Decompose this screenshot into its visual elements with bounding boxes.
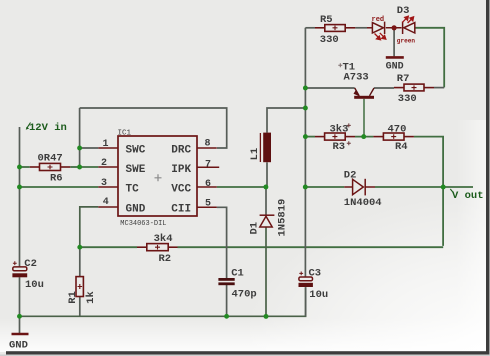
wire D1 column bottom xyxy=(265,227,267,316)
svg-text:TC: TC xyxy=(126,183,140,195)
svg-text:3: 3 xyxy=(101,178,107,189)
wire R6 to junction xyxy=(70,166,79,168)
resistor R7 xyxy=(394,84,434,91)
transistor T1 xyxy=(354,88,375,99)
svg-text:1N5819: 1N5819 xyxy=(277,199,289,237)
svg-text:1k: 1k xyxy=(85,291,97,304)
node C1 ground xyxy=(224,314,229,319)
wire pin2 row xyxy=(80,166,99,168)
svg-text:MC34063-DIL: MC34063-DIL xyxy=(120,220,166,228)
svg-text:7: 7 xyxy=(205,159,211,170)
svg-text:12V in: 12V in xyxy=(29,122,67,134)
svg-text:R1: R1 xyxy=(67,291,79,304)
wire R2 row right xyxy=(178,246,444,248)
IC1 pin name labels xyxy=(126,145,192,216)
resistor R6 xyxy=(30,163,71,170)
led D3 red arrows xyxy=(375,33,386,40)
svg-text:red: red xyxy=(372,16,385,24)
gnd symbol left xyxy=(12,333,29,336)
wire ground row xyxy=(20,287,306,316)
svg-text:470p: 470p xyxy=(232,289,257,301)
wire vout row xyxy=(305,186,344,188)
wire R2 row left xyxy=(80,246,137,248)
resistor R3 xyxy=(315,133,355,140)
svg-text:D1: D1 xyxy=(249,222,261,235)
frame border right xyxy=(486,0,489,355)
node D1 ground xyxy=(264,314,269,319)
svg-text:10u: 10u xyxy=(309,289,328,301)
svg-text:R3: R3 xyxy=(333,141,346,153)
svg-text:R4: R4 xyxy=(395,141,408,153)
wire R5 to red led xyxy=(355,27,367,29)
pin7 stub only xyxy=(197,166,219,168)
resistor R4 xyxy=(373,133,414,140)
svg-text:C3: C3 xyxy=(309,268,322,280)
svg-text:R2: R2 xyxy=(159,253,172,265)
svg-text:R7: R7 xyxy=(397,73,410,85)
wire pin3 row xyxy=(20,186,99,188)
svg-text:C2: C2 xyxy=(24,258,37,270)
resistor R5 xyxy=(315,25,355,32)
wire C3 bottom xyxy=(305,287,307,316)
IC1 origin cross xyxy=(155,174,162,181)
capacitor C1 xyxy=(218,278,234,285)
svg-text:DRC: DRC xyxy=(171,145,191,157)
led D3 green xyxy=(403,22,415,34)
wire D2 right to vout xyxy=(375,186,473,188)
IC1 pin numbers xyxy=(101,139,211,210)
node L1 top xyxy=(303,106,308,111)
wire D1 column top xyxy=(265,187,267,215)
wire R7 right xyxy=(434,87,444,89)
wire R1 bottom xyxy=(79,297,81,317)
svg-text:330: 330 xyxy=(320,34,339,46)
wire rail below C2 to ground row xyxy=(19,277,21,316)
svg-text:SWE: SWE xyxy=(126,164,146,176)
wire R3 R4 middle xyxy=(355,136,373,138)
node led center xyxy=(392,25,397,30)
wire GND left stub xyxy=(19,316,21,333)
IC IC1 MC34063-DIL xyxy=(98,136,217,216)
wire pin1 row xyxy=(80,147,99,149)
svg-text:R5: R5 xyxy=(320,14,333,26)
diode D2 xyxy=(344,179,375,196)
wire green led to corner xyxy=(415,28,444,88)
wire R3 row left xyxy=(305,136,315,138)
capacitor C3 xyxy=(299,272,313,288)
wire junction vertical xyxy=(79,108,81,167)
svg-text:GND: GND xyxy=(126,204,146,216)
svg-text:0R47: 0R47 xyxy=(38,153,63,165)
node base-R3R4 xyxy=(361,134,366,139)
node rail-ground xyxy=(17,314,22,319)
svg-text:D2: D2 xyxy=(344,169,357,181)
inductor L1 xyxy=(260,133,271,163)
capacitor C2 xyxy=(12,261,27,277)
diode D1 xyxy=(260,215,275,227)
svg-text:6: 6 xyxy=(205,179,211,190)
wire 12V rail xyxy=(19,127,21,267)
wire T1 collector to R7 xyxy=(374,87,394,89)
wire T1 emitter row xyxy=(305,87,354,89)
svg-text:GND: GND xyxy=(9,339,28,351)
svg-text:green: green xyxy=(397,38,416,45)
wire T1 base drop xyxy=(363,99,365,137)
node pin2 junction xyxy=(77,165,82,170)
svg-text:5: 5 xyxy=(205,199,211,210)
node R3 left xyxy=(303,134,308,139)
svg-text:3k3: 3k3 xyxy=(330,123,349,135)
svg-text:1N4004: 1N4004 xyxy=(344,197,382,209)
resistor R2 xyxy=(137,244,178,251)
wire pin8 loop xyxy=(80,108,227,148)
node vout right xyxy=(441,185,446,190)
node pin1 junction xyxy=(77,146,82,151)
svg-text:330: 330 xyxy=(398,93,417,105)
svg-text:IPK: IPK xyxy=(171,164,191,176)
wire pin6 row xyxy=(217,186,266,188)
led D3 green arrows xyxy=(402,16,413,23)
resistor R1 xyxy=(76,277,83,297)
svg-text:GND: GND xyxy=(386,62,404,73)
svg-text:VCC: VCC xyxy=(171,183,191,195)
node rail-R6 xyxy=(17,165,22,170)
led D3 red xyxy=(367,22,385,34)
node D1 top xyxy=(263,185,268,190)
wire pin5 drop xyxy=(217,207,227,278)
svg-text:IC1: IC1 xyxy=(118,130,132,138)
wire top row left xyxy=(305,27,315,29)
svg-text:10u: 10u xyxy=(25,279,44,291)
wire L1 bottom xyxy=(266,162,268,187)
svg-text:V out: V out xyxy=(452,190,484,202)
node emitter xyxy=(303,86,308,91)
svg-text:8: 8 xyxy=(205,139,211,150)
wire D3 gnd stub xyxy=(393,28,395,57)
svg-text:4: 4 xyxy=(103,197,109,208)
svg-text:C1: C1 xyxy=(231,268,244,280)
wire led junction segment xyxy=(386,27,402,29)
svg-text:L1: L1 xyxy=(249,148,261,161)
wire main right vertical xyxy=(304,28,306,277)
wire R6 row xyxy=(20,166,30,168)
node divider xyxy=(77,245,82,250)
frame border bottom xyxy=(6,351,489,354)
gnd symbol D3 xyxy=(386,56,404,59)
wire R1 top xyxy=(79,247,81,276)
svg-text:2: 2 xyxy=(101,158,107,169)
wire pin4 to divider node xyxy=(80,207,99,247)
svg-text:A733: A733 xyxy=(344,71,369,83)
wire R4 right and drop to vout xyxy=(414,137,443,246)
wire L1 top link xyxy=(267,108,305,133)
svg-text:R6: R6 xyxy=(50,173,63,185)
svg-text:1: 1 xyxy=(103,139,109,150)
svg-text:SWC: SWC xyxy=(126,145,146,157)
node rail-pin3 xyxy=(17,185,22,190)
node vout left xyxy=(303,185,308,190)
svg-text:CII: CII xyxy=(171,204,191,216)
wire C1 bottom xyxy=(226,285,228,316)
svg-text:3k4: 3k4 xyxy=(154,233,173,245)
svg-text:D3: D3 xyxy=(397,5,410,17)
svg-text:470: 470 xyxy=(388,123,407,135)
